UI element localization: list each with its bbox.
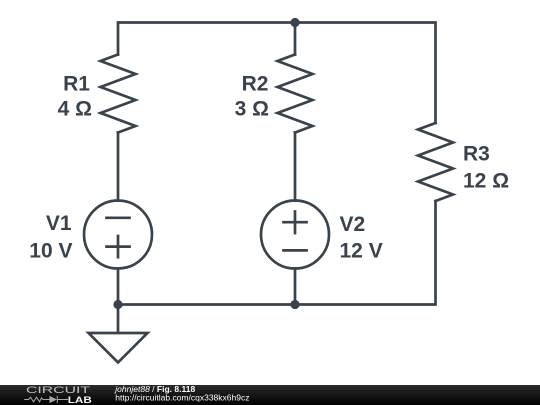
wire V1 to bottom (117, 269, 120, 305)
resistor R2 (278, 55, 313, 133)
node junction bottom-left (113, 300, 122, 309)
svg-text:V1: V1 (46, 212, 72, 235)
svg-text:R3: R3 (463, 143, 490, 166)
wire top rail (118, 23, 436, 124)
voltage source V2 (261, 201, 329, 269)
logo circuit line: wire, resistor, diode (24, 396, 68, 403)
svg-text:LAB: LAB (68, 395, 93, 405)
svg-text:V2: V2 (340, 213, 366, 236)
svg-text:http://circuitlab.com/cqx338kx: http://circuitlab.com/cqx338kx6h9cz (115, 393, 249, 403)
voltage source V1 (84, 201, 152, 269)
ground (89, 305, 148, 363)
svg-text:R2: R2 (242, 73, 269, 96)
wire R2 to V2 (294, 133, 297, 201)
wire V2 to bottom (294, 269, 297, 305)
logo diode triangle (50, 396, 58, 403)
svg-text:R1: R1 (63, 73, 90, 96)
wire bottom rail (118, 201, 436, 305)
svg-text:12 V: 12 V (340, 239, 383, 262)
svg-text:10 V: 10 V (29, 239, 72, 262)
resistor R1 (101, 55, 136, 133)
footer bar (0, 385, 540, 405)
svg-text:12 Ω: 12 Ω (463, 169, 509, 192)
node junction top (290, 18, 299, 27)
wire R2 top stub (294, 23, 297, 55)
wire R1 to V1 (117, 133, 120, 201)
node junction bottom-mid (290, 300, 299, 309)
svg-text:3 Ω: 3 Ω (235, 98, 269, 121)
resistor R3 (418, 123, 453, 201)
svg-text:4 Ω: 4 Ω (58, 98, 92, 121)
